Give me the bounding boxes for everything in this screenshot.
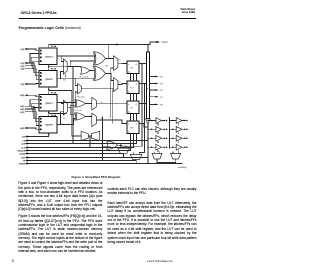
QLUT3 pins [40, 50, 42, 62]
svg-text:B: B [147, 87, 149, 90]
svg-text:CLK: CLK [21, 147, 26, 150]
buffer B12 [147, 126, 167, 133]
svg-text:A[4]: A[4] [20, 48, 24, 51]
wire T-D output [166, 159, 176, 164]
mux M2 [114, 56, 118, 71]
FF Q0 [127, 121, 139, 134]
footer page number [12, 259, 14, 263]
buffer B21 [169, 118, 188, 125]
mux M2b [78, 84, 82, 95]
wire QLUT1 carry tap [49, 88, 72, 95]
svg-text:Q: Q [136, 123, 138, 126]
mux M4 [63, 100, 67, 115]
control CIN [22, 133, 50, 139]
input B2 [20, 104, 38, 122]
svg-text:SEL: SEL [21, 157, 26, 160]
buffer B22 [169, 126, 188, 133]
output O4 [149, 76, 163, 79]
svg-text:FF0: FF0 [130, 127, 133, 130]
svg-text:D: D [128, 103, 130, 106]
mux M7 facing right [81, 131, 88, 140]
output O2 [149, 89, 163, 92]
vertical feed wire b [71, 91, 73, 136]
svg-text:O2: O2 [160, 89, 164, 92]
wire T-C input stubs [154, 152, 159, 154]
wire T-B output [135, 160, 137, 164]
buffer under bar pointing down [146, 119, 151, 125]
output O0 [149, 104, 163, 107]
output O3 [149, 83, 163, 86]
wire M1 output [65, 61, 94, 77]
svg-text:Q: Q [136, 63, 138, 66]
wire FF Q2 out [139, 83, 146, 85]
svg-text:WD[3:0]: WD[3:0] [18, 150, 26, 153]
svg-text:B[4]: B[4] [20, 94, 24, 97]
mux M1 [63, 59, 67, 74]
control SEL [21, 156, 148, 159]
buffer column feed 2 [169, 118, 171, 149]
svg-text:A[0]: A[0] [20, 83, 24, 86]
svg-text:O3: O3 [160, 83, 164, 86]
wire T-C output [157, 159, 176, 162]
footer company [147, 260, 173, 263]
output bus bar [146, 52, 149, 119]
wire M7-M8 join [72, 136, 92, 147]
FF Q2 [127, 81, 139, 94]
header left: ORCA Series 2 FPGAs [21, 11, 57, 15]
svg-text:5-4529(F): 5-4529(F) [178, 166, 187, 169]
svg-text:B[0]: B[0] [20, 127, 24, 130]
QLUT1 pins [40, 96, 42, 108]
svg-text:FF2: FF2 [130, 87, 133, 90]
wire G1 output [90, 70, 94, 72]
svg-text:GSRN: GSRN [19, 153, 25, 156]
svg-text:CE: CE [22, 140, 25, 143]
control LSR [21, 142, 136, 145]
svg-text:D0: D0 [119, 59, 121, 62]
mux M6 [92, 113, 97, 126]
buffer B13 [147, 135, 167, 142]
input A0 [20, 83, 38, 86]
xor gate X3 [75, 100, 76, 107]
wire mux M2 lower input feed [110, 68, 112, 118]
xor gate X2 [93, 66, 94, 80]
svg-text:D: D [128, 83, 130, 86]
svg-text:CK: CK [128, 131, 131, 134]
control TS [23, 159, 136, 162]
figure caption [72, 175, 121, 179]
mux M3 [114, 78, 118, 92]
input B3 [20, 100, 38, 119]
FF control verticals [131, 74, 137, 151]
xor gate X4 [75, 113, 76, 120]
svg-text:PLSB: PLSB [51, 45, 57, 48]
wire mux M3 lower input feed [111, 89, 113, 123]
svg-text:LSR: LSR [21, 143, 26, 146]
svg-text:WREN: WREN [19, 163, 26, 166]
wire M2b output to M3 lower input [75, 79, 113, 103]
xor gate X1 [93, 52, 94, 65]
gate G1 [81, 67, 90, 75]
svg-text:D: D [128, 63, 130, 66]
right body column [108, 187, 197, 196]
input A4 [20, 48, 38, 51]
wire T-A output [123, 153, 125, 157]
svg-text:A[2]: A[2] [20, 65, 24, 68]
svg-text:COUT: COUT [162, 41, 169, 44]
COUT arrowhead [157, 41, 160, 43]
control CLK [21, 146, 133, 149]
svg-text:QLUT2: QLUT2 [46, 78, 54, 81]
wire QLUT3 output [57, 56, 95, 62]
left body column [18, 181, 102, 212]
svg-text:A[3]: A[3] [20, 62, 24, 65]
wire M2 lower input [111, 67, 114, 69]
wire T-B input stubs [133, 153, 139, 155]
svg-text:QLUT3: QLUT3 [46, 55, 54, 58]
wire QLUT2 output [57, 72, 95, 79]
wire M6 output to FF Q0 [96, 120, 127, 124]
buffer B11 [147, 118, 167, 125]
mux T-C down [152, 153, 162, 159]
wire FF Q3 out [139, 63, 146, 65]
control CE [22, 139, 147, 142]
mux T-B down [130, 154, 142, 159]
svg-text:C1: C1 [63, 117, 65, 120]
wire M3 output to FF Q2 [118, 84, 127, 85]
wire QLUT0 carry tap [49, 112, 66, 117]
wire X2 output to mux M3 [106, 73, 114, 80]
svg-text:CK: CK [128, 111, 131, 114]
control WD[3:0] [18, 149, 131, 152]
svg-text:FF3: FF3 [130, 67, 133, 70]
svg-text:CK: CK [128, 91, 131, 94]
QLUT2 [39, 71, 57, 87]
QLUT0 [39, 116, 57, 132]
vertical feed wire a [73, 67, 110, 144]
or gate G2 [107, 141, 118, 149]
wire QLUT0 output [57, 112, 75, 125]
svg-text:PFU_MUX: PFU_MUX [77, 96, 86, 99]
input B0 [20, 127, 38, 130]
svg-text:TS: TS [23, 160, 26, 163]
svg-text:D: D [128, 123, 130, 126]
mux T-D down [171, 153, 181, 159]
svg-text:F5A: F5A [105, 64, 109, 67]
wire X3 output [85, 103, 91, 105]
vertical bus [102, 117, 110, 161]
mux T-A down [118, 148, 130, 153]
svg-text:PLSB: PLSB [51, 91, 57, 94]
svg-text:B[1]: B[1] [20, 111, 24, 114]
svg-text:O4: O4 [160, 76, 164, 79]
wire M5 output to FF Q1 [96, 103, 127, 105]
buffer B23 [169, 135, 188, 142]
svg-text:C0: C0 [63, 78, 65, 81]
mux M8 facing left [91, 131, 99, 140]
svg-text:FF1: FF1 [130, 107, 133, 110]
svg-text:PFU_NAND: PFU_NAND [79, 76, 89, 79]
wire FF Q0 out [139, 124, 148, 128]
wire QLUT2 carry tap [49, 65, 73, 70]
mux M5 [92, 97, 97, 110]
control GSRN [19, 152, 123, 155]
svg-text:CIN: CIN [22, 136, 26, 139]
FF Q3 [127, 61, 139, 74]
svg-text:CK: CK [128, 71, 131, 74]
QLUT0 pins [40, 118, 42, 130]
wire X4 output [85, 115, 91, 117]
wire bar bottom vertical [147, 124, 149, 163]
wire M4 output [67, 105, 75, 115]
svg-text:O1: O1 [160, 96, 164, 99]
input A3 [20, 54, 38, 73]
wire FF Q3 feedback [121, 65, 142, 147]
svg-text:PFU_NC: PFU_NC [75, 109, 83, 112]
svg-text:B[3]: B[3] [20, 105, 24, 108]
carry line to COUT [49, 42, 157, 52]
input A1 [20, 61, 38, 80]
svg-text:D1: D1 [119, 81, 121, 84]
svg-text:A[1]: A[1] [20, 68, 24, 71]
svg-text:QLUT0: QLUT0 [46, 124, 54, 127]
svg-text:Q: Q [136, 83, 138, 86]
QLUT3 [39, 48, 57, 64]
input B4 [20, 94, 38, 97]
svg-text:B[2]: B[2] [20, 108, 24, 111]
buffer B14 [147, 144, 167, 151]
wire FF Q1 out [139, 103, 146, 105]
wire T-D input stubs [173, 152, 178, 154]
svg-text:QLUT1: QLUT1 [46, 102, 54, 105]
wire FF Q2 feedback [139, 85, 144, 153]
control WREN [19, 162, 182, 165]
output O1 [149, 96, 163, 99]
QLUT2 pins [40, 72, 42, 84]
FF Q1 [127, 101, 139, 114]
wire X1 output to mux M2 [106, 45, 114, 59]
header right: Data Sheet / June 1999 [120, 8, 195, 15]
svg-text:Q: Q [136, 103, 138, 106]
input B1 [20, 108, 38, 126]
input A2 [20, 57, 38, 76]
header rule [19, 17, 196, 20]
section heading [19, 26, 81, 30]
carry line mid arrowhead [116, 44, 119, 46]
wire QLUT1 output [57, 102, 75, 105]
wire M2 output to FF Q3 [118, 62, 127, 64]
svg-text:O0: O0 [160, 104, 164, 107]
buffer B24 [169, 144, 188, 151]
wire G2 output arrow [118, 144, 121, 146]
QLUT1 [39, 95, 57, 111]
wire T-A input stubs [121, 146, 127, 148]
